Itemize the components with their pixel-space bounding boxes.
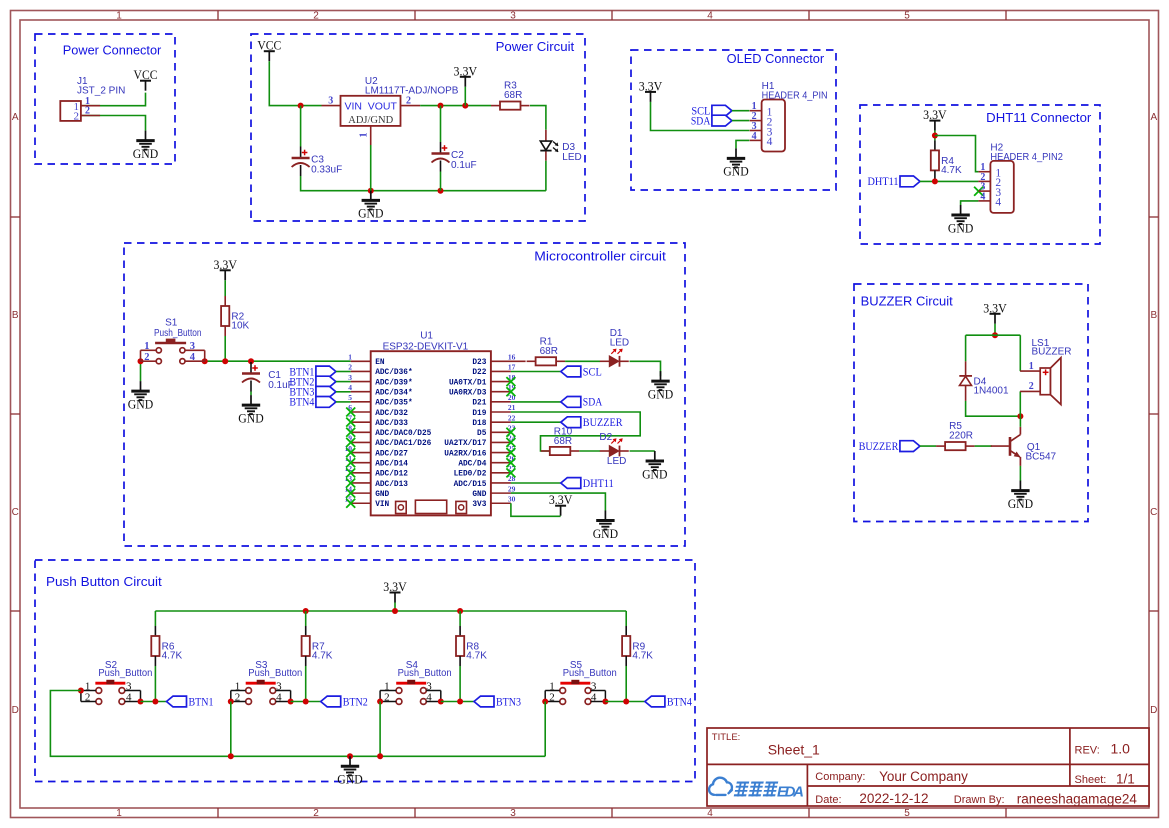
wire U1 3V3 pin30: [511, 503, 561, 516]
svg-text:B: B: [1150, 310, 1157, 321]
svg-text:SDA: SDA: [691, 113, 711, 127]
wire collector up: [1019, 416, 1021, 427]
no-connect X U1 pin 10: [346, 448, 355, 457]
svg-text:4: 4: [426, 692, 432, 704]
net flag BTN3 MCU: [289, 385, 336, 399]
svg-text:GND: GND: [128, 396, 153, 411]
svg-text:2: 2: [384, 692, 390, 704]
svg-text:LED: LED: [607, 456, 626, 467]
microcontroller U1 ESP32-DEVKIT-V1: [345, 330, 526, 515]
wire LS1 pin2 to collector: [1019, 391, 1021, 416]
resistor R4: [931, 140, 962, 180]
svg-text:4: 4: [995, 197, 1001, 209]
svg-text:C: C: [1150, 507, 1157, 518]
wire rail to R6: [154, 611, 156, 626]
junction S2 right: [138, 699, 144, 705]
svg-text:D: D: [1150, 705, 1157, 716]
junction VOUT/3.3V: [462, 103, 468, 109]
junction S2 left: [78, 688, 84, 694]
connector H2 HEADER 4_PIN2: [978, 142, 1063, 213]
net flag BTN3 push section: [474, 694, 521, 708]
svg-text:LM1117T-ADJ/NOPB: LM1117T-ADJ/NOPB: [365, 86, 459, 97]
resistor R8: [456, 626, 487, 666]
wire BTN3 to U1: [336, 391, 351, 393]
svg-text:GND: GND: [133, 146, 158, 161]
svg-text:2: 2: [74, 111, 80, 123]
svg-text:1/1: 1/1: [1116, 772, 1135, 787]
net flag SCL MCU: [561, 364, 602, 378]
ground D1: [648, 371, 673, 401]
resistor R5: [936, 421, 975, 450]
svg-text:4.7K: 4.7K: [466, 651, 487, 662]
svg-text:21: 21: [508, 403, 516, 412]
svg-text:4.7K: 4.7K: [162, 651, 183, 662]
junction S4 left: [377, 699, 383, 705]
wire S5 to GND rail: [544, 702, 546, 757]
no-connect X U1 pin 15: [346, 499, 355, 508]
svg-text:GND: GND: [375, 491, 389, 499]
svg-text:A: A: [1150, 112, 1157, 123]
wire R9 to button net: [625, 666, 627, 702]
svg-text:GND: GND: [472, 491, 486, 499]
junction R6 bottom: [152, 699, 158, 705]
svg-text:3: 3: [510, 808, 516, 819]
svg-text:Company:: Company:: [815, 771, 865, 783]
svg-text:1: 1: [116, 11, 122, 22]
title block texts: [712, 732, 1138, 806]
junction S1 pin4: [202, 358, 208, 364]
svg-text:ADC/D13: ADC/D13: [375, 481, 408, 489]
svg-text:220R: 220R: [949, 431, 973, 442]
svg-text:ADC/DAC1/D26: ADC/DAC1/D26: [375, 440, 431, 448]
section box Power Connector: [35, 34, 175, 164]
svg-text:GND: GND: [723, 164, 748, 179]
svg-text:ADC/D15: ADC/D15: [454, 481, 487, 489]
wire R3 to D3: [530, 106, 546, 130]
svg-text:UA0TX/D1: UA0TX/D1: [449, 379, 487, 387]
junction S3 left: [228, 699, 234, 705]
svg-text:GND: GND: [948, 220, 973, 235]
wire U2 ADJ to GND rail: [370, 145, 372, 191]
svg-text:D2: D2: [599, 432, 612, 443]
svg-text:Push_Button: Push_Button: [98, 668, 152, 679]
net flag BTN4 push section: [645, 694, 692, 708]
svg-text:HEADER 4_PIN2: HEADER 4_PIN2: [990, 152, 1063, 163]
svg-text:Your Company: Your Company: [879, 769, 968, 784]
svg-text:2: 2: [313, 808, 319, 819]
wire 3.3V drop push: [394, 603, 396, 612]
wire 3.3V to R4/junction: [934, 131, 936, 141]
junction S5 left: [542, 699, 548, 705]
capacitor C3: [292, 147, 343, 177]
svg-text:5: 5: [904, 808, 910, 819]
svg-text:4: 4: [190, 352, 196, 363]
svg-text:4.7K: 4.7K: [941, 165, 962, 176]
wire R1 to D1: [565, 360, 600, 362]
svg-text:1: 1: [116, 808, 122, 819]
no-connect X U1 pin 11: [346, 458, 355, 467]
wire S3 to BTN2 flag: [291, 701, 321, 703]
section box OLED Connector: [631, 50, 836, 190]
wire R8 to button net: [459, 666, 461, 702]
wire 3.3V to H1 pin3: [651, 102, 750, 131]
svg-text:4: 4: [767, 136, 773, 148]
junction VCC/C3: [298, 103, 304, 109]
svg-text:GND: GND: [1008, 496, 1033, 511]
no-connect X U1 pin 9: [346, 438, 355, 447]
wire U1 D18 to BUZZER: [511, 421, 561, 423]
wire DHT11 to H2 pin2: [920, 180, 978, 182]
svg-text:ADC/D27: ADC/D27: [375, 450, 408, 458]
wire H1 pin4 to GND: [736, 140, 749, 148]
wire C2 bottom: [440, 172, 442, 191]
wire S4 to BTN3 flag: [441, 701, 474, 703]
svg-text:3: 3: [426, 680, 432, 692]
resistor R6: [151, 626, 182, 666]
svg-text:3: 3: [190, 341, 195, 352]
wire D2 to GND: [630, 450, 655, 452]
svg-text:4: 4: [752, 131, 757, 142]
wire J1 pin1 to VCC: [81, 93, 146, 106]
power VCC power-circuit: [257, 38, 281, 62]
svg-text:2: 2: [313, 11, 319, 22]
net flag DHT11 connector: [868, 174, 921, 188]
svg-text:5: 5: [904, 11, 910, 22]
net flag DHT11 MCU: [561, 476, 614, 490]
junction 3.3V DHT11: [932, 133, 938, 139]
svg-text:GND: GND: [642, 466, 667, 481]
svg-text:D21: D21: [472, 400, 486, 408]
svg-text:4.7K: 4.7K: [312, 651, 333, 662]
LED D2: [600, 438, 629, 456]
wire R5 to Q1 base: [975, 445, 992, 447]
svg-text:16: 16: [508, 353, 516, 362]
resistor R1: [527, 336, 566, 365]
svg-text:UA2TX/D17: UA2TX/D17: [444, 440, 486, 448]
svg-text:1N4001: 1N4001: [974, 386, 1009, 397]
svg-text:BTN4: BTN4: [289, 395, 314, 409]
wire BUZZER to R5: [920, 445, 936, 447]
resistor R10: [541, 427, 580, 455]
svg-text:22: 22: [508, 413, 516, 422]
wire C1 to GND: [250, 392, 252, 396]
svg-text:Push_Button: Push_Button: [154, 328, 202, 339]
title block outline: [707, 728, 1149, 806]
svg-text:Sheet_1: Sheet_1: [768, 742, 820, 758]
wire S2 to BTN1 flag: [141, 701, 167, 703]
svg-text:4: 4: [707, 808, 713, 819]
junction R7 bottom: [303, 699, 309, 705]
wire U1 D19 to R10: [511, 412, 640, 451]
svg-text:BUZZER Circuit: BUZZER Circuit: [861, 295, 954, 309]
svg-text:Push_Button: Push_Button: [398, 668, 452, 679]
wire S4 to GND rail: [379, 702, 381, 757]
svg-text:raneeshagamage24: raneeshagamage24: [1017, 791, 1138, 806]
svg-text:S1: S1: [165, 318, 178, 329]
svg-text:VIN: VIN: [345, 100, 363, 112]
svg-text:4: 4: [591, 692, 597, 704]
svg-text:B: B: [12, 310, 19, 321]
no-connect X U1 pin 13: [346, 478, 355, 487]
power 3.3V DHT11: [923, 107, 947, 131]
wire S1 pin2 to GND: [140, 361, 142, 381]
svg-text:Power Circuit: Power Circuit: [496, 40, 575, 54]
wire to LS1 pin1: [1019, 335, 1021, 371]
wire H2 pin4 to GND: [961, 201, 979, 205]
svg-text:U1: U1: [420, 330, 433, 341]
svg-text:10K: 10K: [231, 321, 249, 332]
buzzer LS1: [1020, 338, 1071, 405]
resistor R3: [491, 81, 530, 110]
wire U1 D22 to SCL: [511, 371, 561, 373]
svg-text:BUZZER: BUZZER: [583, 415, 623, 429]
svg-text:GND: GND: [238, 410, 263, 425]
svg-text:BTN3: BTN3: [496, 694, 521, 708]
section box Power Circuit: [251, 34, 585, 221]
net flag BUZZER MCU: [561, 415, 623, 429]
svg-text:Push_Button: Push_Button: [563, 668, 617, 679]
svg-text:ADC/D39*: ADC/D39*: [375, 379, 412, 387]
svg-text:BUZZER: BUZZER: [1032, 347, 1072, 358]
svg-text:ADC/D32: ADC/D32: [375, 410, 408, 418]
no-connect X U1 pin 12: [346, 468, 355, 477]
LED D3: [540, 130, 581, 163]
wire U1 D21 to SDA: [511, 401, 561, 403]
power 3.3V U1 pin30: [549, 492, 573, 516]
svg-text:D5: D5: [477, 430, 487, 438]
no-connect X U1 pin 19: [506, 387, 515, 396]
wire BTN2 to U1: [336, 381, 351, 383]
wire SCL to H1 pin1: [732, 110, 749, 112]
capacitor C1: [242, 362, 294, 392]
svg-text:ADC/D12: ADC/D12: [375, 471, 408, 479]
resistor R9: [622, 626, 653, 666]
svg-text:VIN: VIN: [375, 501, 389, 509]
net flag BTN1 MCU: [289, 364, 336, 378]
svg-text:2: 2: [235, 692, 241, 704]
regulator U2 LM1117T-ADJ/NOPB: [322, 76, 459, 145]
svg-text:TITLE:: TITLE:: [712, 732, 741, 743]
no-connect X U1 pin 18: [506, 377, 515, 386]
no-connect X U1 pin 6: [346, 408, 355, 417]
wire rail to R7: [305, 611, 307, 626]
svg-text:Push Button Circuit: Push Button Circuit: [46, 575, 162, 589]
wire C3 top: [300, 106, 302, 147]
wire S1 to U1 EN: [205, 360, 351, 362]
resistor R7: [302, 626, 333, 666]
svg-text:SCL: SCL: [583, 364, 602, 378]
no-connect X U1 pin 14: [346, 489, 355, 498]
svg-text:30: 30: [508, 494, 516, 503]
svg-text:1.0: 1.0: [1111, 741, 1131, 757]
power 3.3V R2: [213, 257, 237, 281]
ground U1 pin29: [593, 511, 618, 541]
svg-text:0.33uF: 0.33uF: [311, 165, 342, 176]
ground DHT11: [948, 205, 973, 235]
svg-text:DHT11: DHT11: [868, 174, 899, 188]
wire rail to R8: [459, 611, 461, 626]
junction ADJ/GND rail: [368, 188, 374, 194]
svg-text:BTN1: BTN1: [189, 694, 214, 708]
svg-text:68R: 68R: [504, 90, 522, 101]
svg-text:D22: D22: [472, 369, 486, 377]
ground C1: [238, 395, 263, 425]
svg-text:ADC/D14: ADC/D14: [375, 461, 408, 469]
svg-text:BC547: BC547: [1026, 451, 1057, 462]
section box DHT11 Connector: [860, 105, 1100, 244]
svg-text:3: 3: [276, 680, 282, 692]
net flag SDA H1: [691, 113, 732, 127]
wire VOUT to R3: [420, 105, 491, 107]
svg-text:Sheet:: Sheet:: [1075, 774, 1107, 786]
svg-text:4: 4: [980, 191, 985, 202]
svg-text:3: 3: [591, 680, 597, 692]
wire SDA to H1 pin2: [732, 120, 749, 122]
svg-text:ADC/D34*: ADC/D34*: [375, 390, 412, 398]
svg-text:VOUT: VOUT: [368, 100, 398, 112]
ground push-buttons: [337, 756, 362, 786]
push button S2: [81, 660, 152, 704]
svg-text:68R: 68R: [554, 436, 572, 447]
svg-text:EDA: EDA: [777, 784, 804, 801]
svg-text:EN: EN: [375, 359, 385, 367]
svg-text:OLED Connector: OLED Connector: [727, 52, 825, 66]
wire S3 to GND rail: [230, 702, 232, 757]
no-connect X U1 pin 25: [506, 448, 515, 457]
svg-text:LED: LED: [562, 152, 581, 163]
svg-text:2: 2: [85, 692, 91, 704]
push button S5: [545, 660, 617, 704]
no-connect X U1 pin 27: [506, 468, 515, 477]
svg-text:LED: LED: [610, 338, 629, 349]
no-connect X U1 pin 23: [506, 428, 515, 437]
svg-text:Drawn By:: Drawn By:: [954, 794, 1005, 806]
junction rail R8: [457, 608, 463, 614]
no-connect X U1 pin 24: [506, 438, 515, 447]
junction R9 bottom: [623, 699, 629, 705]
svg-text:2: 2: [406, 95, 411, 106]
push button S4: [380, 660, 452, 704]
svg-text:4: 4: [707, 11, 713, 22]
wire BTN1 to U1: [336, 371, 351, 373]
LED D1: [600, 349, 629, 367]
net flag BUZZER input: [859, 439, 920, 453]
junction S5 right: [602, 699, 608, 705]
svg-text:ADC/D36*: ADC/D36*: [375, 369, 412, 377]
power 3.3V power-circuit: [454, 63, 478, 87]
wire rail to R9: [625, 611, 627, 626]
wire U1 ADC/D15 to DHT11: [511, 482, 561, 484]
svg-text:ADC/DAC0/D25: ADC/DAC0/D25: [375, 430, 431, 438]
svg-text:0.1uF: 0.1uF: [451, 160, 477, 171]
junction S1 pin2: [138, 358, 144, 364]
svg-text:SDA: SDA: [583, 395, 603, 409]
junction GND rail GND: [347, 753, 353, 759]
net flag BTN2 push section: [321, 694, 368, 708]
svg-text:REV:: REV:: [1075, 744, 1100, 756]
svg-text:1: 1: [384, 680, 390, 692]
svg-text:4: 4: [276, 692, 282, 704]
junction 3.3V buzzer: [992, 332, 998, 338]
junction R8 bottom: [457, 699, 463, 705]
svg-text:DHT11 Connector: DHT11 Connector: [986, 111, 1091, 125]
svg-text:A: A: [12, 112, 19, 123]
svg-text:JST_2 PIN: JST_2 PIN: [77, 86, 125, 97]
power VCC J1: [134, 67, 158, 91]
svg-text:3V3: 3V3: [472, 501, 486, 509]
svg-text:D19: D19: [472, 410, 486, 418]
svg-text:29: 29: [508, 484, 516, 493]
ground OLED: [723, 148, 748, 178]
svg-text:3: 3: [126, 680, 132, 692]
push button S3: [231, 660, 302, 704]
svg-text:1: 1: [549, 680, 555, 692]
wire 3.3V to H2 pin1: [935, 136, 979, 172]
wire 3.3V drop power-circuit: [464, 87, 466, 106]
svg-text:3: 3: [510, 11, 516, 22]
wire buzzer top rail: [966, 334, 1021, 336]
svg-text:BTN2: BTN2: [343, 694, 368, 708]
svg-text:C: C: [12, 507, 19, 518]
svg-text:UA0RX/D3: UA0RX/D3: [449, 390, 487, 398]
svg-text:UA2RX/D16: UA2RX/D16: [444, 450, 486, 458]
svg-text:1: 1: [144, 341, 149, 352]
svg-text:1: 1: [348, 353, 352, 362]
section box Microcontroller circuit: [124, 243, 685, 546]
svg-text:3: 3: [328, 95, 333, 106]
svg-text:Power Connector: Power Connector: [63, 44, 162, 58]
svg-text:D: D: [12, 705, 19, 716]
svg-text:Microcontroller circuit: Microcontroller circuit: [534, 250, 666, 264]
junction C2/GND rail: [438, 188, 444, 194]
svg-text:ADC/D4: ADC/D4: [458, 461, 486, 469]
no-connect X U1 pin 7: [346, 418, 355, 427]
svg-text:HEADER 4_PIN: HEADER 4_PIN: [762, 91, 828, 102]
wire 3.3V drop buzzer: [994, 324, 996, 335]
net flag SCL H1: [691, 104, 732, 118]
wire D3 to GND rail: [545, 161, 547, 191]
svg-text:3: 3: [348, 373, 352, 382]
wire to D4 anode: [965, 335, 967, 361]
svg-text:1: 1: [85, 680, 91, 692]
svg-text:BUZZER: BUZZER: [859, 439, 899, 453]
junction R4/DHT11: [932, 178, 938, 184]
power 3.3V push-buttons: [383, 579, 407, 603]
svg-text:ADC/D35*: ADC/D35*: [375, 400, 412, 408]
svg-text:4: 4: [348, 383, 352, 392]
power 3.3V OLED: [639, 78, 663, 102]
svg-text:1: 1: [235, 680, 241, 692]
svg-text:GND: GND: [337, 772, 362, 787]
svg-text:2: 2: [85, 106, 90, 117]
svg-text:GND: GND: [358, 206, 383, 221]
wire S5 to BTN4 flag: [605, 701, 645, 703]
svg-text:BTN4: BTN4: [667, 694, 692, 708]
wire GND rail power-circuit: [301, 176, 546, 191]
wire 3.3V to R2: [224, 280, 226, 296]
ground D2: [642, 451, 667, 481]
connector H1 HEADER 4_PIN: [750, 81, 828, 152]
ground S1: [128, 381, 153, 411]
junction rail 3.3V: [392, 608, 398, 614]
junction rail R7: [303, 608, 309, 614]
svg-text:D18: D18: [472, 420, 486, 428]
wire 3.3V rail push: [155, 610, 626, 612]
junction S3 right: [288, 699, 294, 705]
wire BTN4 to U1: [336, 401, 351, 403]
ground Q1: [1008, 481, 1033, 511]
svg-text:LED0/D2: LED0/D2: [454, 471, 487, 479]
